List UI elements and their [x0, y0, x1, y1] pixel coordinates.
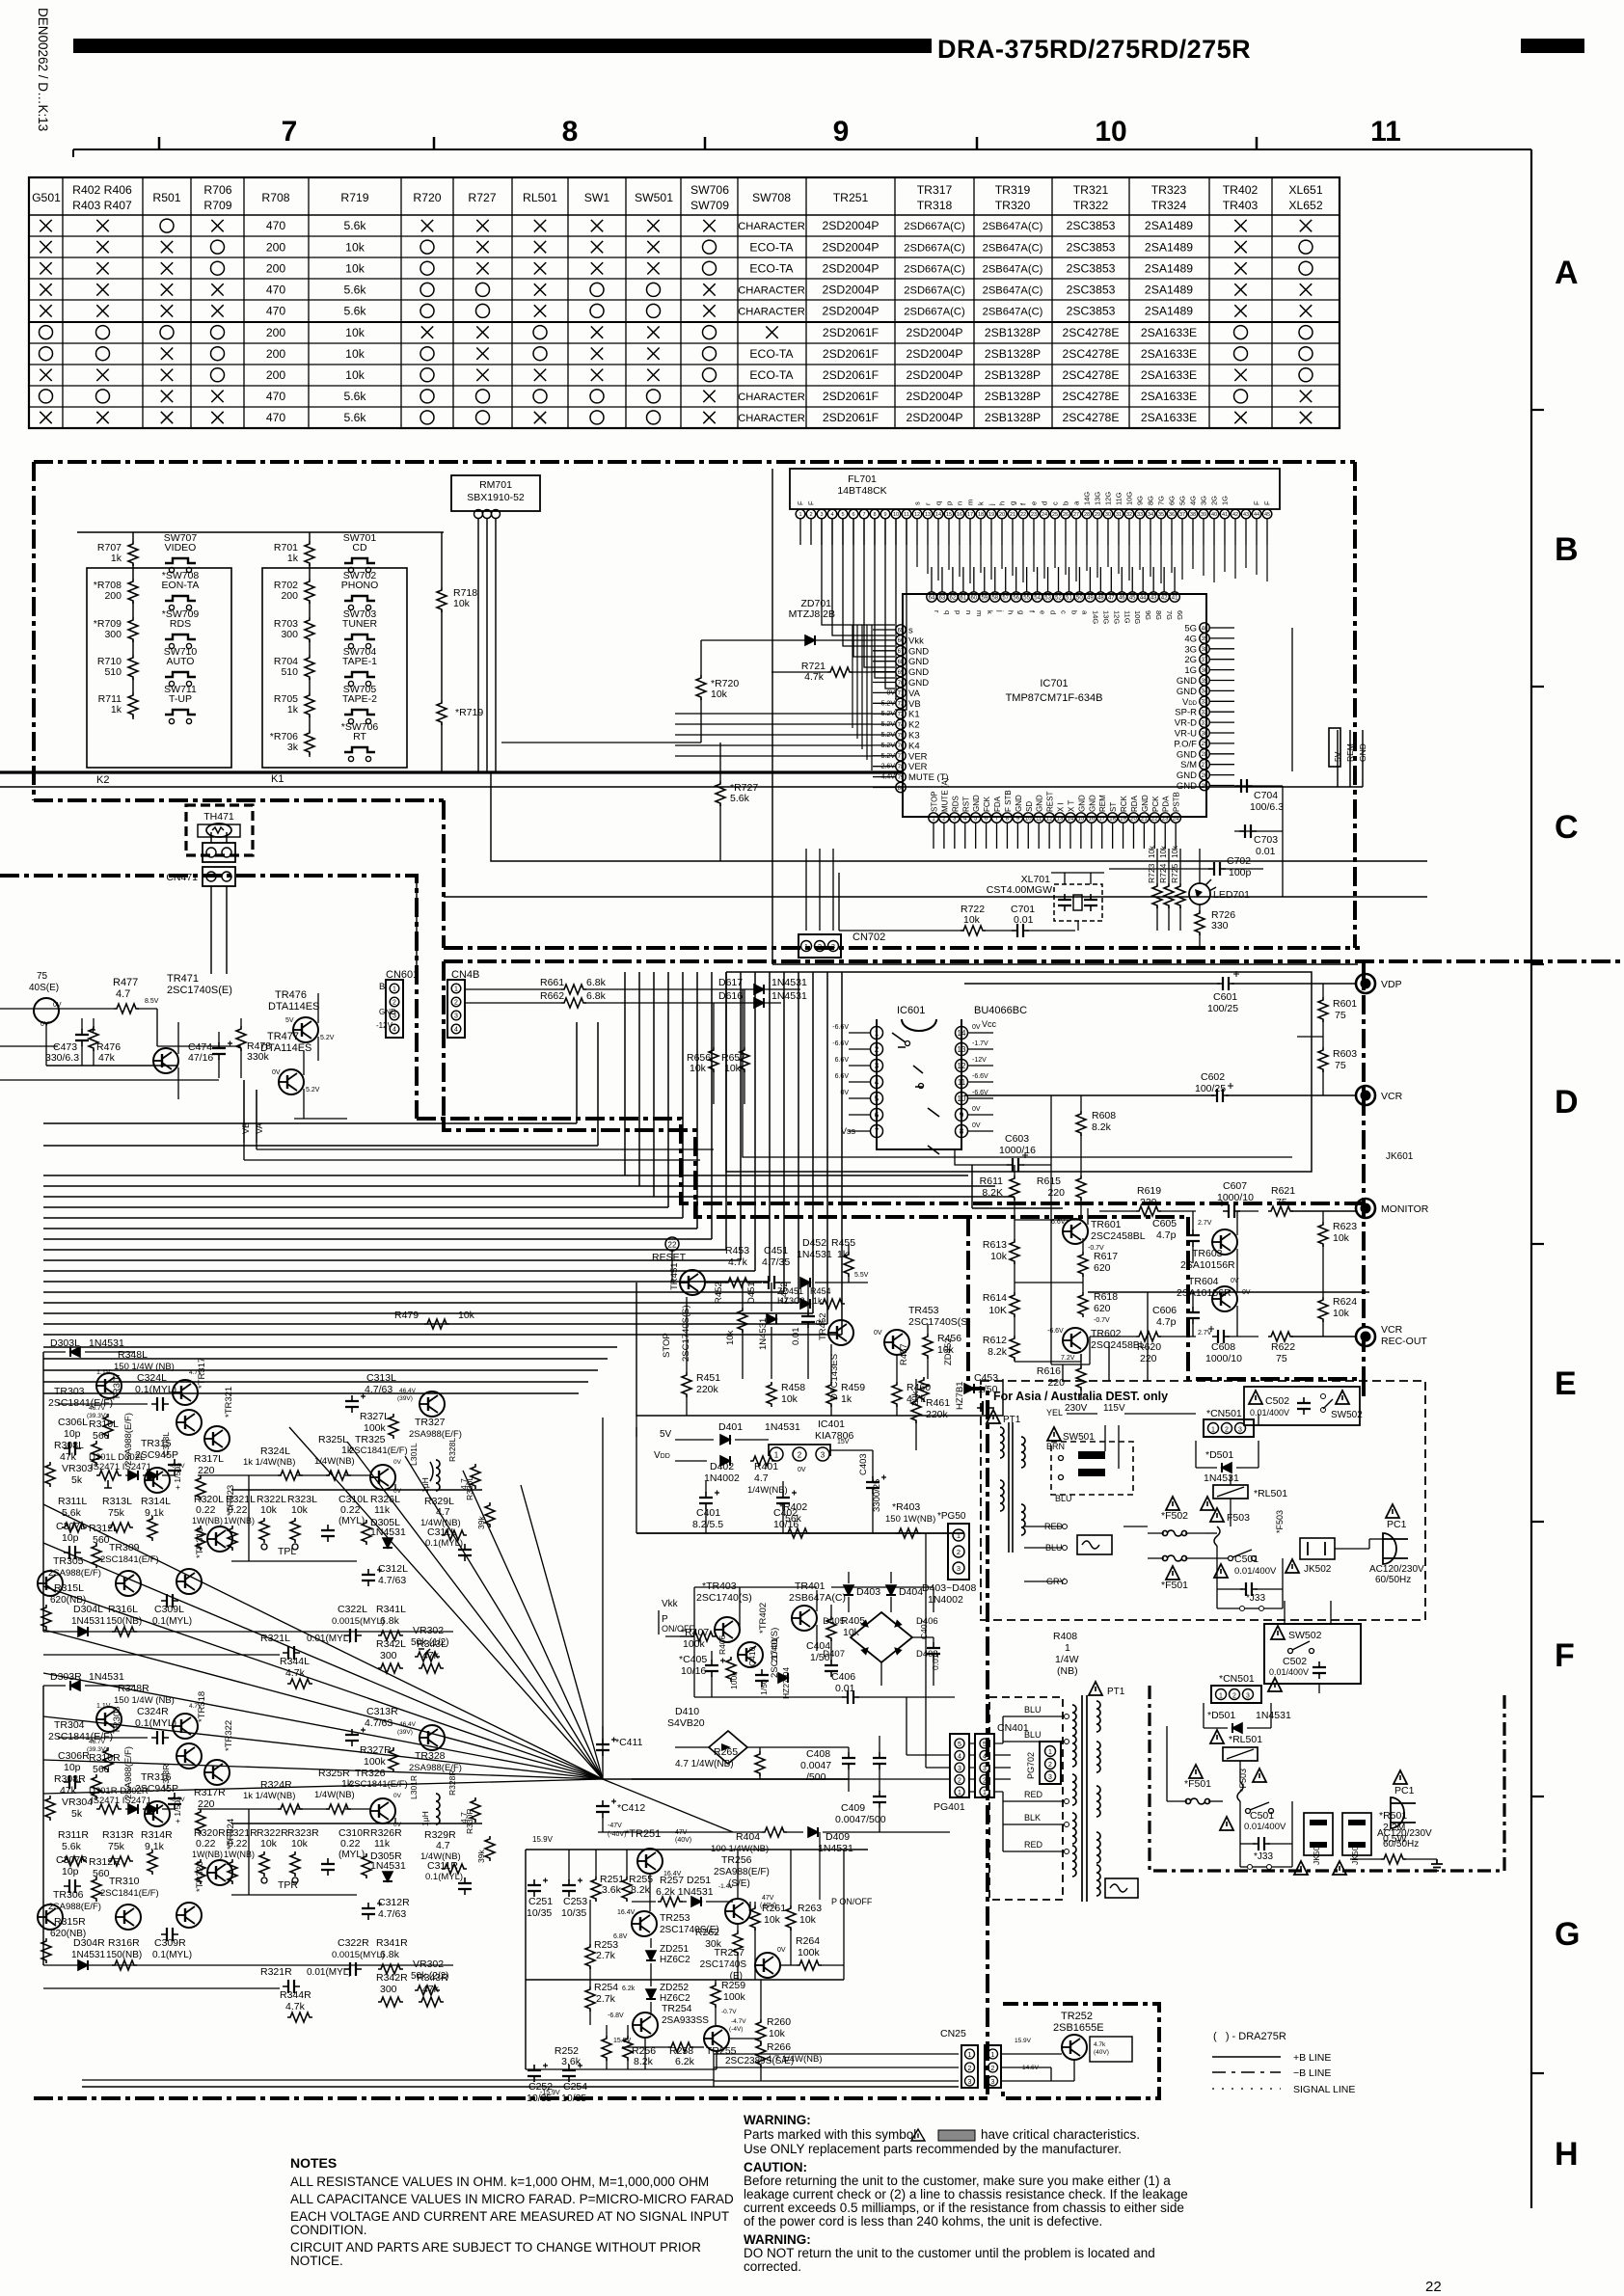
svg-text:0V: 0V: [393, 1822, 402, 1828]
resistor R344L 4.7k: [280, 1656, 312, 1688]
svg-text:510: 510: [104, 666, 122, 678]
svg-text:RCK: RCK: [1120, 795, 1128, 812]
svg-text:R327L: R327L: [360, 1411, 390, 1422]
svg-text:2SA988(E/F): 2SA988(E/F): [409, 1763, 462, 1773]
svg-text:10G: 10G: [1133, 610, 1142, 624]
svg-text:8.5V: 8.5V: [145, 998, 159, 1005]
svg-text:40: 40: [1211, 512, 1217, 518]
resistor R459 1k: [826, 1344, 865, 1416]
svg-text:10k: 10k: [764, 1914, 781, 1926]
svg-text:R402 R406: R402 R406: [72, 183, 132, 197]
svg-text:48: 48: [1097, 595, 1104, 601]
resistor R255 8.2k: [622, 1850, 653, 1902]
capacitor C311R 0.1(MYL): [425, 1860, 472, 1895]
svg-text:R611: R611: [980, 1175, 1003, 1187]
resistor R344R 4.7k: [280, 1989, 312, 2022]
svg-text:2SD2061F: 2SD2061F: [823, 347, 879, 361]
svg-text:C702: C702: [1227, 855, 1251, 867]
transistor *TR402 2SC1740(S): [738, 1603, 780, 1678]
svg-text:-12V: -12V: [972, 1057, 987, 1064]
svg-text:0V: 0V: [393, 1459, 402, 1466]
svg-text:2SD667A(C): 2SD667A(C): [904, 263, 965, 275]
svg-text:L301L: L301L: [409, 1443, 419, 1466]
svg-text:PHONO: PHONO: [341, 580, 379, 591]
svg-text:-6.6V: -6.6V: [832, 1040, 849, 1047]
switch + C501 (lower): [1220, 1802, 1292, 1850]
lower box wires: [1167, 1601, 1391, 1823]
svg-text:200: 200: [266, 240, 286, 254]
transistor TR471 2SC1740S(E): [153, 973, 232, 1099]
resistor R323R 10k: [278, 1827, 319, 1891]
svg-text:0.22: 0.22: [340, 1838, 361, 1850]
svg-text:35: 35: [1202, 679, 1208, 685]
svg-text:2: 2: [454, 1000, 458, 1007]
svg-text:g: g: [1009, 501, 1017, 505]
svg-text:3G: 3G: [1200, 496, 1208, 505]
label D403~D408 1N4002: [922, 1582, 976, 1606]
svg-text:22: 22: [1020, 512, 1026, 518]
svg-text:F: F: [1253, 500, 1261, 505]
capacitor C308R 1/50: [161, 1765, 182, 1823]
svg-text:-4.7V: -4.7V: [731, 2018, 746, 2025]
svg-text:4.7: 4.7: [754, 1472, 769, 1484]
svg-text:11k: 11k: [374, 1504, 391, 1516]
diodes D301L D302L IS2471: [89, 1452, 174, 1480]
svg-text:C: C: [1555, 809, 1579, 846]
svg-text:1W(NB): 1W(NB): [192, 1516, 223, 1526]
svg-text:44: 44: [1254, 512, 1259, 518]
svg-text:4.7/35: 4.7/35: [762, 1256, 790, 1268]
svg-text:10/35: 10/35: [527, 1907, 552, 1919]
svg-text:6G: 6G: [1168, 496, 1177, 505]
svg-text:IS2471 IS2471: IS2471 IS2471: [91, 1462, 151, 1472]
svg-text:R342R: R342R: [376, 1972, 408, 1984]
svg-text:PT1: PT1: [1107, 1687, 1125, 1697]
wire labels RED BLU GRY: [1024, 1522, 1068, 1586]
svg-text:*PG50: *PG50: [937, 1511, 966, 1522]
svg-text:5.2V: 5.2V: [320, 1035, 335, 1041]
svg-text:0.22: 0.22: [196, 1838, 216, 1850]
resistor R621 75: [1268, 1185, 1356, 1216]
svg-text:VIDEO: VIDEO: [165, 542, 197, 554]
svg-text:4.7k: 4.7k: [285, 1667, 306, 1679]
svg-text:3: 3: [454, 1013, 458, 1020]
transistor TR304 2SC1841(E/F): [48, 1703, 122, 1742]
IC601 surrounding box: [726, 972, 1312, 1172]
svg-text:16.4V: 16.4V: [617, 1909, 636, 1916]
svg-text:1: 1: [1219, 1693, 1223, 1700]
svg-text:R312L: R312L: [89, 1523, 119, 1534]
svg-text:CN25: CN25: [940, 2028, 966, 2039]
jumper *J33 (lower): [1240, 1844, 1292, 1870]
svg-text:4: 4: [830, 512, 833, 518]
relay *RL501 (Asia): [1201, 1485, 1287, 1510]
svg-text:C306L: C306L: [58, 1417, 88, 1428]
capacitor C406 0.01: [694, 1671, 955, 1704]
svg-text:14G: 14G: [1083, 492, 1092, 505]
svg-text:100k: 100k: [729, 1671, 739, 1689]
svg-text:(NB): (NB): [1057, 1665, 1078, 1677]
svg-text:2SC4278E: 2SC4278E: [1063, 347, 1120, 361]
capacitor C307L 10p: [56, 1521, 86, 1559]
svg-text:4.7/63: 4.7/63: [378, 1575, 406, 1586]
svg-text:e: e: [1030, 501, 1039, 505]
capacitor C452 0.01: [779, 1282, 815, 1379]
svg-text:PDA: PDA: [1162, 796, 1171, 812]
resistor R325L 1k 1/4W(NB): [314, 1434, 355, 1480]
svg-text:R612: R612: [983, 1335, 1007, 1346]
svg-text:+ 1/50: + 1/50: [173, 1467, 182, 1490]
svg-text:FL701: FL701: [848, 473, 877, 485]
resistor R460 4.7k: [892, 1355, 931, 1416]
svg-text:current exceeds 0.5 milliamps,: current exceeds 0.5 milliamps, or if the…: [744, 2201, 1184, 2215]
svg-text:8: 8: [562, 116, 579, 148]
svg-text:D401: D401: [718, 1421, 743, 1433]
svg-text:18: 18: [1109, 816, 1116, 822]
svg-text:60/50Hz: 60/50Hz: [1375, 1575, 1411, 1585]
P ON/OFF label lower: [820, 1832, 873, 1906]
svg-text:2G: 2G: [1184, 655, 1197, 665]
svg-text:R404: R404: [736, 1831, 760, 1843]
svg-text:1: 1: [392, 986, 396, 993]
resistor R256 8.2k: [623, 2025, 656, 2069]
svg-text:14BT48CK: 14BT48CK: [837, 485, 886, 497]
capacitor C324L 0.1(MYL): [135, 1372, 176, 1411]
resistor R314R 9.1k: [141, 1829, 173, 1875]
transistor TR303 2SC1841(E/F): [48, 1369, 122, 1409]
resistor R259 100k: [711, 1980, 746, 2025]
resistor R341R 6.8k: [376, 1937, 408, 1974]
svg-text:10k: 10k: [345, 347, 365, 361]
svg-text:10k: 10k: [990, 1251, 1008, 1262]
resistor R314L 9.1k: [141, 1496, 171, 1541]
svg-text:1N4531: 1N4531: [818, 1843, 853, 1854]
svg-text:2SD2004P: 2SD2004P: [907, 347, 963, 361]
svg-text:10p: 10p: [62, 1866, 79, 1877]
trimmer VR303 5k: [62, 1463, 122, 1488]
svg-text:GND: GND: [1177, 687, 1197, 697]
resistor R624 10k: [1318, 1292, 1357, 1337]
svg-text:C306R: C306R: [58, 1750, 90, 1762]
svg-text:0.1(MYL): 0.1(MYL): [152, 1616, 192, 1627]
svg-text:41: 41: [1222, 512, 1228, 518]
svg-text:38: 38: [1190, 512, 1196, 518]
svg-text:40: 40: [1202, 626, 1208, 632]
svg-text:have critical characteristics.: have critical characteristics.: [981, 2127, 1140, 2142]
svg-text:10k: 10k: [345, 368, 365, 382]
connector CN4B: [447, 969, 479, 1038]
svg-text:62: 62: [950, 595, 957, 601]
svg-text:TR251: TR251: [833, 191, 869, 204]
svg-text:TR319: TR319: [995, 183, 1031, 197]
svg-text:47k: 47k: [422, 1984, 440, 1995]
capacitor C322L 0.0015(MYL): [332, 1604, 385, 1642]
svg-text:GND: GND: [1015, 795, 1023, 812]
svg-text:TPL: TPL: [278, 1546, 296, 1557]
resistor R603 75: [1297, 1037, 1357, 1095]
svg-text:R623: R623: [1333, 1221, 1357, 1232]
svg-text:*R403: *R403: [892, 1501, 920, 1513]
svg-text:*RL501: *RL501: [1254, 1488, 1287, 1499]
svg-text:AC120/230V: AC120/230V: [1369, 1564, 1424, 1575]
svg-text:S4VB20: S4VB20: [667, 1717, 705, 1729]
svg-text:n: n: [964, 610, 973, 614]
svg-text:2SB647A(C): 2SB647A(C): [983, 285, 1043, 297]
svg-text:2SA988(E/F): 2SA988(E/F): [409, 1429, 462, 1440]
svg-text:150(NB): 150(NB): [106, 1616, 142, 1627]
svg-text:B: B: [379, 982, 385, 992]
transistor *TR321: [204, 1387, 234, 1451]
resistor R317L 220: [194, 1453, 224, 1500]
svg-text:CHARACTER: CHARACTER: [738, 413, 805, 424]
resistor R612 8.2k: [983, 1335, 1019, 1362]
diode D304R 1N4531: [71, 1937, 105, 1970]
svg-text:Vkk: Vkk: [908, 635, 924, 646]
svg-text:60/50Hz: 60/50Hz: [1383, 1839, 1419, 1850]
svg-text:2SB1328P: 2SB1328P: [985, 326, 1041, 339]
svg-text:0.0015(MYL): 0.0015(MYL): [332, 1616, 385, 1627]
svg-text:VDD: VDD: [1182, 697, 1198, 708]
svg-text:5: 5: [841, 512, 844, 518]
WARNING text block: [744, 2113, 1188, 2274]
diodes D452 1N4531 ZD451 R454: [777, 1237, 869, 1309]
svg-text:47/16: 47/16: [188, 1052, 213, 1064]
svg-text:R479: R479: [394, 1310, 419, 1321]
svg-text:0.1(MYL): 0.1(MYL): [135, 1384, 176, 1395]
svg-text:(39V): (39V): [397, 1395, 413, 1402]
svg-text:ZD452: ZD452: [943, 1337, 954, 1365]
svg-text:TR310: TR310: [109, 1876, 140, 1887]
resistor *R501 2.2M 0.5W: [1350, 1810, 1437, 1864]
svg-text:4.7/63: 4.7/63: [365, 1384, 392, 1395]
microcontroller IC701 TMP87CM71F-634B: [873, 567, 1234, 849]
svg-text:10/16: 10/16: [681, 1665, 706, 1677]
svg-text:15.9V: 15.9V: [1015, 2038, 1032, 2044]
svg-text:1k: 1k: [287, 704, 299, 716]
resistor R266 4.7 1/4W(NB): [756, 2041, 823, 2081]
svg-text:R708: R708: [261, 191, 289, 204]
svg-text:ECO-TA: ECO-TA: [749, 347, 794, 361]
svg-text:66: 66: [898, 638, 905, 644]
svg-text:1000/16: 1000/16: [999, 1145, 1036, 1156]
svg-text:*TR403: *TR403: [702, 1580, 737, 1592]
resistor R722: [839, 873, 986, 935]
svg-text:1W(NB): 1W(NB): [224, 1850, 255, 1859]
svg-text:75: 75: [1276, 1353, 1287, 1364]
bottom border: [34, 2096, 988, 2100]
svg-text:j: j: [996, 609, 1005, 612]
svg-text:p: p: [945, 501, 954, 505]
svg-text:R723: R723: [1147, 863, 1156, 883]
svg-text:9: 9: [883, 512, 886, 518]
svg-text:DTA114ES: DTA114ES: [268, 1001, 319, 1013]
transistor *TR320: [176, 1861, 205, 1928]
svg-text:F STB: F STB: [1004, 790, 1013, 812]
svg-text:2SA1633E: 2SA1633E: [1141, 368, 1197, 382]
resistor R323L 10k: [278, 1494, 317, 1557]
svg-text:1: 1: [774, 1451, 779, 1460]
svg-text:TR305: TR305: [53, 1555, 84, 1567]
svg-text:47k: 47k: [422, 1650, 440, 1661]
svg-text:10p: 10p: [64, 1428, 81, 1440]
svg-text:R455: R455: [831, 1237, 855, 1249]
connector CN601: [376, 876, 419, 1038]
svg-text:SW706: SW706: [690, 183, 729, 197]
svg-text:GND: GND: [1141, 795, 1150, 812]
resistor R326R 11k: [362, 1827, 402, 1878]
svg-text:R619: R619: [1137, 1185, 1161, 1197]
svg-text:P ON/OFF: P ON/OFF: [831, 1897, 873, 1906]
svg-text:38: 38: [1202, 647, 1208, 653]
svg-text:2SC4278E: 2SC4278E: [1063, 326, 1120, 339]
svg-text:SW1: SW1: [584, 191, 610, 204]
svg-text:230V: 230V: [1065, 1403, 1088, 1414]
svg-text:10k: 10k: [1333, 1232, 1350, 1244]
resistor R265 4.7 1/4W(NB): [675, 1746, 765, 1779]
svg-text:R314R: R314R: [141, 1829, 173, 1841]
svg-text:3: 3: [1246, 1693, 1250, 1700]
resistor R615 220: [1037, 1172, 1086, 1220]
transistor TR325 2SC1841(E/F): [349, 1434, 408, 1495]
svg-text:R601: R601: [1333, 998, 1357, 1010]
svg-text:16: 16: [957, 512, 962, 518]
svg-text:26: 26: [1202, 773, 1208, 779]
svg-text:CHARACTER: CHARACTER: [738, 392, 805, 403]
capacitor C608 1000/10: [1205, 1326, 1259, 1364]
svg-text:16: 16: [1088, 816, 1095, 822]
capacitor C312R 4.7/63: [362, 1897, 410, 1920]
svg-text:AC120/230V: AC120/230V: [1377, 1828, 1432, 1839]
zener ZD251 HZ6C2: [646, 1938, 690, 1980]
svg-text:R719: R719: [340, 191, 368, 204]
svg-text:CD: CD: [352, 542, 367, 554]
svg-text:7: 7: [282, 116, 298, 148]
svg-text:55: 55: [1023, 595, 1030, 601]
svg-text:43: 43: [1243, 512, 1249, 518]
svg-text:R459: R459: [841, 1382, 865, 1393]
svg-text:q: q: [943, 610, 952, 614]
svg-text:10k: 10k: [1171, 845, 1179, 858]
capacitor C702: [1109, 855, 1263, 878]
svg-text:g: g: [1017, 610, 1026, 614]
svg-text:MONITOR: MONITOR: [1381, 1203, 1429, 1215]
svg-text:G: G: [1555, 1916, 1580, 1953]
svg-text:5.5V: 5.5V: [854, 1272, 869, 1279]
svg-text:2SB647A(C): 2SB647A(C): [983, 307, 1043, 318]
page number: [1425, 2279, 1442, 2295]
capacitor C312L 4.7/63: [362, 1563, 408, 1586]
capacitor C322R 0.0015(MYL): [332, 1937, 385, 1976]
svg-text:(39V): (39V): [397, 1729, 413, 1736]
transformer PT1 (lower): [989, 1695, 1138, 1902]
svg-text:4.7/63: 4.7/63: [378, 1908, 406, 1920]
svg-text:1G: 1G: [1221, 496, 1230, 505]
svg-text:2SC945P: 2SC945P: [135, 1449, 178, 1461]
svg-text:2SA1633E: 2SA1633E: [1141, 326, 1197, 339]
svg-text:30: 30: [1105, 512, 1111, 518]
svg-text:12: 12: [914, 512, 920, 518]
svg-text:K2: K2: [96, 774, 109, 786]
resistor R321R 0.22 1W(NB): [224, 1827, 257, 1884]
svg-text:D304L: D304L: [73, 1604, 103, 1615]
svg-text:2: 2: [818, 942, 822, 951]
svg-text:5k: 5k: [71, 1808, 83, 1820]
svg-text:22: 22: [668, 1241, 677, 1250]
crystal XL701 CST4.00MGW: [987, 873, 1104, 931]
svg-text:C407: C407: [919, 1619, 929, 1639]
svg-text:1N4002: 1N4002: [704, 1472, 740, 1484]
svg-text:GND: GND: [908, 667, 929, 678]
svg-text:560: 560: [93, 1534, 110, 1546]
svg-text:57: 57: [1002, 595, 1009, 601]
svg-text:a: a: [1080, 610, 1089, 615]
diode *D501 1N4531 (Asia): [1196, 1441, 1259, 1484]
svg-text:STOP: STOP: [931, 791, 939, 812]
resistor R328L 4.7: [447, 1438, 480, 1490]
svg-text:-47V: -47V: [608, 1823, 622, 1829]
svg-text:*C412: *C412: [617, 1802, 645, 1814]
svg-text:12: 12: [958, 1062, 966, 1070]
svg-text:3: 3: [820, 512, 823, 518]
resistor *R719: [437, 700, 483, 772]
svg-text:44: 44: [1140, 595, 1147, 601]
svg-text:10k: 10k: [345, 261, 365, 275]
resistor R406 100k: [717, 1634, 739, 1689]
svg-text:ZD401: ZD401: [770, 1637, 779, 1662]
svg-text:28: 28: [1202, 752, 1208, 758]
svg-text:200: 200: [266, 347, 286, 361]
svg-text:FDA: FDA: [993, 796, 1002, 812]
svg-text:1: 1: [991, 2052, 995, 2059]
resistor R308R 47k: [45, 1773, 86, 1821]
svg-text:JK502: JK502: [1304, 1564, 1332, 1575]
svg-text:2: 2: [957, 1548, 961, 1556]
svg-text:10G: 10G: [1125, 492, 1134, 505]
svg-text:R316R: R316R: [108, 1937, 140, 1949]
fuse F503 (Asia): [1210, 1508, 1285, 1554]
diode D305R 1N4531: [370, 1850, 406, 1881]
connector CN471: [166, 832, 235, 974]
svg-text:BRN: BRN: [1046, 1442, 1065, 1451]
svg-text:P.O/F: P.O/F: [1174, 739, 1197, 749]
resistor R251 3.6k: [591, 1850, 624, 1902]
resistor R329R 4.7 1/4W(NB): [420, 1829, 467, 1874]
svg-text:2: 2: [392, 1000, 396, 1007]
capacitor C407 0.01: [919, 1619, 940, 1686]
svg-text:31: 31: [1116, 512, 1122, 518]
svg-text:k: k: [986, 610, 994, 614]
svg-text:2: 2: [1048, 1762, 1052, 1769]
svg-text:EACH VOLTAGE AND CURRENT ARE M: EACH VOLTAGE AND CURRENT ARE MEASURED AT…: [290, 2209, 729, 2224]
resistor R616 220: [1037, 1354, 1086, 1400]
transistor TR328 2SA988(E/F): [397, 1721, 462, 1773]
svg-text:C312R: C312R: [378, 1897, 410, 1908]
svg-text:R720: R720: [413, 191, 441, 204]
svg-text:R257 D251: R257 D251: [660, 1875, 711, 1886]
svg-text:29: 29: [1095, 512, 1100, 518]
svg-text:*D501: *D501: [1205, 1449, 1233, 1461]
headphone amp rail 15.9V: [526, 1835, 868, 2069]
svg-text:23: 23: [1031, 512, 1037, 518]
svg-text:470: 470: [266, 305, 286, 318]
svg-text:s: s: [908, 626, 913, 636]
transistor TR305 2SA988(E/F): [38, 1555, 101, 1596]
svg-text:3: 3: [1048, 1774, 1052, 1781]
svg-text:TR451: TR451: [669, 1262, 680, 1290]
svg-text:TR322: TR322: [1073, 199, 1109, 212]
svg-text:m: m: [975, 610, 984, 616]
svg-text:R608: R608: [1092, 1110, 1116, 1121]
